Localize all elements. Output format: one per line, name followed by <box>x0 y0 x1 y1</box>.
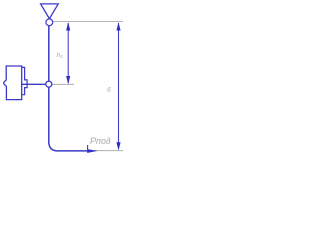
svg-text:б: б <box>107 86 111 94</box>
svg-text:Рпо∂: Рпо∂ <box>90 136 111 146</box>
svg-text:h5: h5 <box>57 52 64 59</box>
